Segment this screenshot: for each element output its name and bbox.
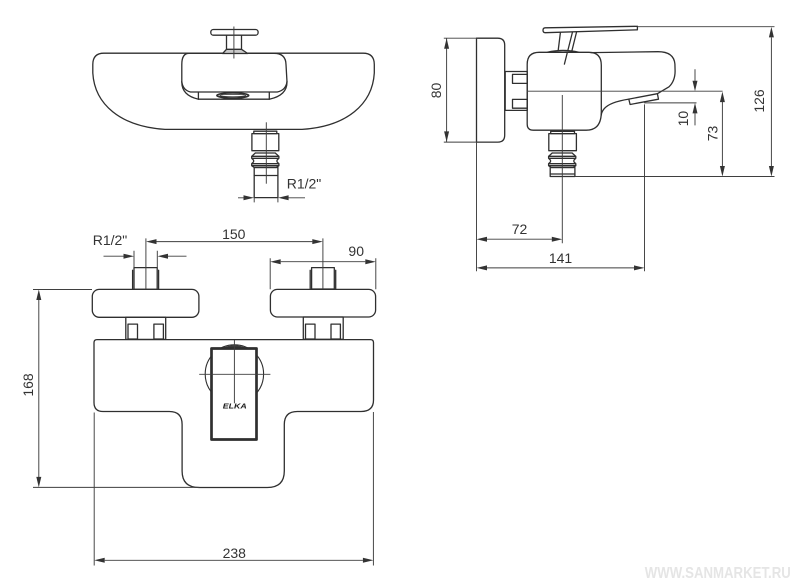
front view: left thread fitting <box>134 268 157 290</box>
front view: handle vertical centerline <box>233 340 235 403</box>
arrow 73 bottom <box>720 166 725 177</box>
front view: body outline <box>94 340 374 488</box>
top view: handle stem flare base <box>223 49 248 53</box>
top view: handle centerline <box>233 27 235 59</box>
svg-text:R1/2": R1/2" <box>287 176 322 192</box>
arrow 10 top <box>693 81 698 92</box>
arrow 238 left <box>94 558 105 563</box>
side view: 73 dimension line <box>721 102 723 166</box>
top view: lever end oval <box>217 93 249 98</box>
svg-text:238: 238 <box>223 545 247 561</box>
arrow 126 bottom <box>769 166 774 177</box>
front view: logo <box>223 402 247 411</box>
arrow top view R1/2 right <box>278 195 289 200</box>
front view: handle horizontal centerline <box>199 373 270 375</box>
top view: nipple ribbed rings <box>252 153 279 168</box>
arrow thread right <box>158 254 169 259</box>
arrow 238 right <box>363 558 374 563</box>
side view: 10 dimension line <box>694 69 696 125</box>
arrow 73 top <box>720 92 725 103</box>
top view: plate inner face line <box>182 82 287 92</box>
side view: 126 top extension <box>637 26 774 28</box>
arrow 141 left <box>477 265 488 270</box>
svg-text:73: 73 <box>705 126 721 142</box>
arrow top view R1/2 left <box>244 195 255 200</box>
svg-text:10: 10 <box>675 111 691 127</box>
front view: 90 dimension <box>270 258 376 289</box>
side view: aerator tip <box>629 94 659 105</box>
front view: left eccentric block <box>92 289 199 317</box>
side view: spout outline <box>591 52 675 94</box>
front view: 238 dimension <box>94 412 373 566</box>
top view: outlet nipple collar <box>254 131 277 133</box>
top view: R1/2 dimension lines <box>238 198 305 203</box>
arrow 150 left <box>146 239 157 244</box>
front view: thread R1/2 dimension <box>104 251 187 268</box>
top view: handle escutcheon plate outer <box>182 53 287 99</box>
side view: lever stem <box>558 32 577 64</box>
top view: plate band divider left <box>197 92 199 99</box>
side view: shower outlet nipple collar <box>551 131 575 133</box>
front view: 150 dimension <box>146 238 323 289</box>
arrow 72 right <box>552 237 563 242</box>
side view: 126 dimension line <box>770 38 772 167</box>
side view: spout extension line <box>644 104 646 271</box>
svg-text:150: 150 <box>222 226 246 242</box>
svg-text:141: 141 <box>549 250 573 266</box>
arrow 80 top <box>444 38 449 49</box>
top view: nipple thread tube <box>254 168 278 198</box>
arrow 150 right <box>312 239 323 244</box>
front view: right eccentric block <box>270 289 375 317</box>
front view: left foot bracket <box>126 317 166 339</box>
svg-text:168: 168 <box>20 373 36 397</box>
side view: 80 dimension <box>444 38 500 142</box>
svg-text:WWW.SANMARKET.RU: WWW.SANMARKET.RU <box>645 565 791 582</box>
top view: handle bar <box>211 30 258 36</box>
arrow 90 left <box>270 259 281 264</box>
side view: wall escutcheon plate <box>477 38 505 142</box>
front view: right thread fitting <box>312 268 335 289</box>
arrow 126 top <box>769 27 774 38</box>
side view: eccentric connector bracket <box>505 72 527 111</box>
front view: dome sliver above handle top <box>221 345 248 348</box>
side view: nipple ribbed rings <box>549 153 576 168</box>
top view: nipple centerline <box>265 122 267 183</box>
side view: body parting reference line y=91.2 <box>527 90 723 92</box>
arrow 80 bottom <box>444 131 449 142</box>
top view: handle stem <box>227 35 242 49</box>
front view: 168 dimension <box>33 290 200 488</box>
top view: outlet nipple cylinder <box>252 134 279 151</box>
side view: cartridge dome <box>547 50 579 52</box>
side view: nipple cylinder <box>549 134 577 151</box>
front view: handle boss circle <box>205 345 263 403</box>
side view: lever bar <box>543 26 637 32</box>
front view: handle lever thick rectangle <box>212 349 257 440</box>
top view: plate band divider right <box>268 92 270 99</box>
arrow thread left <box>124 254 135 259</box>
svg-text:126: 126 <box>751 89 767 113</box>
svg-text:90: 90 <box>348 243 364 259</box>
front view: right foot bracket <box>303 317 343 339</box>
side view: 72 dimension line <box>487 238 552 240</box>
arrow 90 right <box>365 259 376 264</box>
side view: aerator lower reference line <box>644 102 696 104</box>
side view: bottom reference line y=176.5 <box>575 176 775 178</box>
arrow 168 bottom <box>36 477 41 488</box>
top view: mixer body outline <box>93 53 375 129</box>
side view: nipple centerline <box>561 95 563 243</box>
svg-text:R1/2": R1/2" <box>93 232 128 248</box>
side view: wall extension line <box>476 142 478 271</box>
arrow 168 top <box>36 290 41 301</box>
side view: 141 dimension line <box>487 267 634 269</box>
arrow 141 right <box>634 265 645 270</box>
side view: main body <box>527 52 601 130</box>
side view: nipple thread stub <box>550 168 575 177</box>
svg-text:80: 80 <box>428 83 444 99</box>
arrow 72 left <box>477 237 488 242</box>
arrow 10 bottom <box>693 103 698 114</box>
side view: spout underside curve <box>601 99 629 115</box>
svg-text:72: 72 <box>512 221 528 237</box>
